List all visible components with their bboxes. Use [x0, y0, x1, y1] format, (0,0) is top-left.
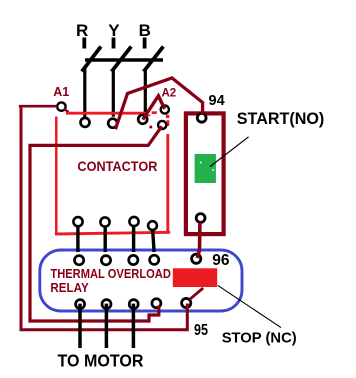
- svg-text:TO MOTOR: TO MOTOR: [58, 350, 144, 370]
- wire: B phase drop: [144, 69, 147, 114]
- svg-text:94: 94: [209, 93, 225, 109]
- wire: motor lead 1: [78, 304, 82, 348]
- contactor box K1 top edge fragment 1b: [147, 115, 150, 117]
- wire: contactor T2 to relay 2: [103, 227, 106, 252]
- svg-text:START(NO): START(NO): [237, 109, 324, 128]
- phase stub Y: [112, 38, 116, 49]
- wire: red link from A1 across contactor top: [66, 112, 148, 115]
- relay input terminal 4: [150, 255, 159, 264]
- contactor T2 terminal: [100, 217, 109, 226]
- speck on green button: [200, 162, 202, 164]
- svg-text:A2: A2: [162, 87, 177, 99]
- wire: Y phase drop: [112, 69, 115, 117]
- relay output terminal 1: [76, 300, 85, 309]
- contactor T1 terminal: [73, 217, 82, 226]
- wire: contactor T3 to relay 3: [132, 227, 135, 252]
- relay output terminal 4: [152, 299, 161, 308]
- relay output terminal 2: [102, 300, 111, 309]
- terminal A2 lower: [158, 121, 166, 129]
- contactor box K1 bottom edge: [55, 232, 170, 234]
- wire: Y phase up over to start terminal 94: [115, 78, 202, 129]
- terminal A2 upper: [161, 105, 169, 113]
- wire: R phase drop: [83, 69, 86, 117]
- phase stub B: [143, 38, 147, 49]
- terminal 96: [192, 254, 201, 263]
- wire: A2 lower to second left bus down to relay terminal 4: [30, 126, 162, 321]
- svg-text:STOP (NC): STOP (NC): [222, 330, 297, 347]
- contactor box K1 right edge fragment: [167, 120, 170, 126]
- relay output terminal 3: [129, 300, 138, 309]
- thermal overload relay body: [40, 250, 242, 311]
- start pushbutton frame S1: [186, 113, 224, 234]
- contactor aux terminal: [148, 221, 157, 230]
- contactor T3 terminal: [129, 217, 138, 226]
- wire: start bottom terminal to terminal 96: [197, 223, 200, 259]
- contactor box K1 top edge fragment 1: [152, 111, 157, 114]
- wire: A1 stub to red link: [64, 109, 69, 112]
- svg-text:THERMAL OVERLOAD: THERMAL OVERLOAD: [50, 267, 170, 281]
- wire: terminal 95 stub to stop button: [190, 288, 204, 299]
- terminal A1: [57, 102, 65, 110]
- terminal 95: [182, 298, 191, 307]
- pointer line START: [210, 137, 249, 167]
- contactor box K1 top edge fragment 2: [166, 115, 169, 118]
- start button actuator (green): [195, 154, 216, 183]
- terminal L1 (R phase): [81, 118, 90, 127]
- svg-text:95: 95: [194, 322, 208, 339]
- wire: contactor aux to relay 4: [153, 231, 154, 253]
- start button bottom terminal: [196, 214, 205, 223]
- wire: B phase to coil A2: [143, 96, 165, 120]
- terminal L2 (Y phase): [108, 119, 117, 128]
- switch blade Y: [112, 47, 132, 72]
- svg-text:B: B: [139, 21, 151, 40]
- terminal 94 of start button: [197, 113, 206, 122]
- wire: supply feed into A1: [19, 105, 57, 108]
- relay input terminal 1: [75, 256, 84, 265]
- svg-text:R: R: [76, 21, 88, 40]
- svg-text:A1: A1: [53, 85, 69, 99]
- pointer line STOP: [218, 285, 281, 327]
- contactor box K1 left edge: [55, 117, 58, 235]
- switch blade B: [144, 47, 164, 72]
- svg-text:Y: Y: [108, 21, 120, 40]
- switch blade R: [82, 47, 101, 72]
- relay input terminal 3: [129, 255, 138, 264]
- phase stub R: [82, 38, 86, 49]
- wire: left bus from A1 down and along bottom to terminal 95: [21, 105, 187, 330]
- speck on green button 2: [212, 169, 214, 171]
- terminal L3 (B phase): [138, 115, 147, 124]
- contactor box K1 right edge: [166, 134, 169, 234]
- stop button actuator (red): [173, 268, 217, 287]
- svg-text:CONTACTOR: CONTACTOR: [77, 158, 157, 174]
- wire: motor lead 2: [105, 304, 109, 348]
- wire: motor lead 3: [132, 304, 136, 348]
- wire: contactor T1 to relay 1: [76, 227, 79, 252]
- switch linkage bar: [85, 58, 163, 62]
- svg-text:96: 96: [212, 252, 230, 269]
- junction dot near A2: [149, 126, 152, 129]
- relay input terminal 2: [101, 256, 110, 265]
- svg-text:RELAY: RELAY: [50, 281, 89, 295]
